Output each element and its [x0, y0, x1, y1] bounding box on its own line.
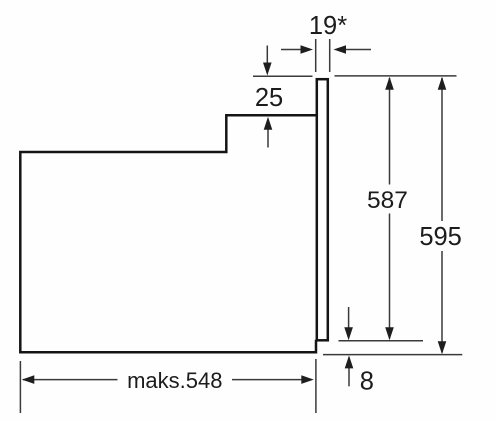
- svg-text:maks.548: maks.548: [127, 368, 222, 393]
- svg-text:8: 8: [360, 367, 374, 395]
- svg-text:595: 595: [419, 223, 462, 251]
- svg-text:25: 25: [255, 84, 283, 112]
- svg-text:587: 587: [367, 187, 408, 214]
- svg-text:19*: 19*: [309, 12, 347, 40]
